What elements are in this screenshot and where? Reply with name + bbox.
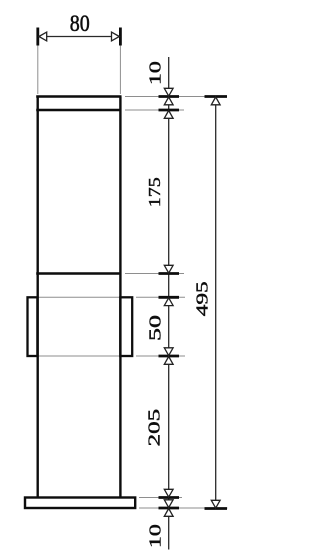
extension line left of 80 dim	[37, 29, 39, 95]
svg-text:175: 175	[145, 177, 164, 207]
sleeve left tab	[28, 297, 38, 356]
extension line sleeve bottom	[136, 355, 185, 357]
arrow 80 right	[112, 32, 120, 41]
dim line 80	[38, 36, 121, 38]
sleeve right tab	[120, 297, 132, 356]
svg-text:10: 10	[146, 61, 165, 85]
svg-text:80: 80	[70, 11, 90, 36]
base plate	[25, 498, 135, 509]
svg-text:10: 10	[146, 524, 165, 548]
svg-text:50: 50	[146, 315, 165, 341]
495 bar top	[205, 95, 228, 98]
overall dim line 495	[215, 97, 217, 509]
arrow up below sleeve top bar	[164, 298, 173, 306]
cap bottom line	[36, 109, 121, 111]
extension line cap top	[125, 96, 227, 98]
extension line right of 80 dim	[119, 29, 121, 95]
chain bar sleeve bottom	[159, 355, 180, 358]
extension line joint	[125, 273, 184, 275]
chain bar base bottom	[159, 507, 180, 510]
post left edge	[37, 97, 39, 498]
arrow down at cap top	[164, 88, 173, 96]
extension line base bottom	[139, 507, 228, 509]
chain bar base top	[159, 496, 180, 499]
arrow down above 495 bottom bar	[211, 500, 220, 508]
arrow up below sleeve bottom bar	[164, 357, 173, 365]
arrow up below 495 top bar	[211, 97, 220, 105]
495 bar bottom	[205, 507, 228, 510]
arrow 80 left	[39, 32, 47, 41]
svg-text:205: 205	[145, 409, 164, 447]
arrow up below base bottom bar	[164, 509, 173, 517]
chain bar cap bottom	[159, 109, 180, 112]
extension line base top	[139, 497, 182, 499]
dim bar 80 right	[119, 28, 122, 46]
arrow down at joint	[164, 265, 173, 273]
arrow down at base bottom (between bars)	[164, 500, 173, 508]
chain bar joint	[159, 272, 180, 275]
arrow down at sleeve bottom	[164, 348, 173, 356]
svg-text:495: 495	[193, 281, 212, 316]
extension line sleeve top	[136, 296, 185, 298]
extension line cap bottom	[125, 109, 184, 111]
post right edge	[119, 97, 121, 498]
arrow down at base top	[164, 489, 173, 497]
dim bar 80 left	[36, 28, 39, 46]
chain bar sleeve top	[159, 296, 180, 299]
chain bar cap top	[159, 95, 180, 98]
chain dim line	[168, 57, 170, 550]
sleeve top line across post	[39, 296, 120, 298]
cap top line	[36, 95, 121, 97]
arrow up below cap bottom bar	[164, 111, 173, 119]
sleeve bottom line across post	[39, 355, 120, 357]
arrow up below cap top bar	[164, 97, 173, 105]
joint line	[36, 272, 121, 274]
